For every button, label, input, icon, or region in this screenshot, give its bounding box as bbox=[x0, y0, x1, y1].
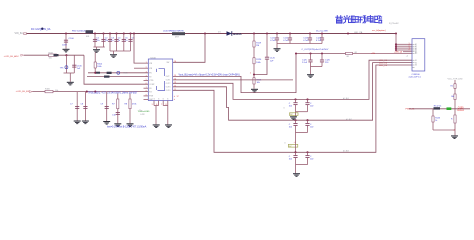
net label bl_fb1 bbox=[343, 98, 350, 100]
wire IC bottom pin 7 bbox=[162, 101, 164, 106]
label TP100 bbox=[60, 67, 65, 69]
wire R121 to gnd bbox=[253, 84, 255, 89]
capacitor C120 bbox=[265, 57, 269, 59]
svg-text:K1: K1 bbox=[415, 60, 417, 62]
resistor R142 body dark bbox=[434, 107, 441, 109]
wire PWM gate bbox=[409, 108, 470, 110]
wire cap C105 drop bbox=[123, 34, 125, 52]
ground C107 bbox=[74, 121, 81, 125]
net label LED_PA on rail bbox=[354, 31, 363, 34]
svg-text:4.7uF: 4.7uF bbox=[316, 40, 322, 42]
IC bottom pin numbers red bbox=[152, 104, 167, 106]
wire cap C106A drop bbox=[130, 34, 132, 52]
capacitor C105 bbox=[122, 39, 126, 41]
label R143 bbox=[435, 118, 441, 120]
wire fb2 down to fb3 bbox=[295, 133, 297, 153]
wire TP gnd drop bbox=[69, 73, 71, 82]
gray mark fb1 bbox=[284, 108, 286, 110]
pin number red x254 bbox=[250, 72, 252, 74]
label R144 bbox=[451, 119, 453, 121]
junction bundle y46.2 bbox=[395, 45, 397, 47]
wire bus1 gnd drop bbox=[96, 47, 98, 49]
capacitor C122 bbox=[288, 38, 292, 40]
wire output bus gnd drop bbox=[276, 44, 278, 49]
labels fb2 caps bbox=[289, 124, 315, 129]
ground fb3 bbox=[293, 173, 300, 177]
svg-text:22u: 22u bbox=[105, 40, 108, 42]
junction rail x95 bbox=[94, 32, 96, 34]
wire IC gnd drop right bbox=[167, 106, 169, 125]
net label PWM_BL red bbox=[406, 108, 416, 110]
wire y53.5 right of R130 bbox=[353, 53, 413, 55]
svg-text:COMP: COMP bbox=[149, 84, 155, 86]
capacitor C110 under R107 bbox=[116, 113, 120, 115]
svg-text:7: 7 bbox=[161, 104, 162, 106]
testpoint TP101 circle bbox=[117, 71, 120, 74]
junction y53.5 x296 bbox=[295, 52, 297, 54]
connector pin names gray bbox=[415, 43, 418, 67]
label R143 val bbox=[435, 120, 437, 122]
label gray column x101 bbox=[111, 55, 113, 57]
svg-text:SWD: SWD bbox=[123, 73, 128, 75]
IC U100 thermal pad red marks bbox=[174, 96, 179, 101]
junction rail x310 bbox=[309, 32, 311, 34]
testpoint TP100 circle bbox=[65, 66, 68, 69]
wire IC gnd bus left bbox=[154, 105, 159, 107]
wire connector anode pin 2 bbox=[396, 45, 412, 47]
wire fb1 capL drop bbox=[295, 99, 297, 102]
label R120 100k bbox=[256, 59, 262, 64]
junction y53.5 x310 bbox=[309, 52, 311, 54]
wire IC left stub 0 bbox=[144, 79, 149, 81]
junction rail x103.5 bbox=[102, 32, 104, 34]
svg-text:TPS61165/2: 4.5T 1.8-24V/28V/1: TPS61165/2: 4.5T 1.8-24V/28V/1.2MHz SW-B… bbox=[88, 93, 139, 95]
junction C120 to divider bbox=[253, 73, 255, 75]
ground output bank bbox=[274, 48, 281, 52]
wire EN to IC bbox=[88, 72, 148, 74]
resistor R104 bbox=[94, 62, 96, 68]
label blue above rail bbox=[316, 31, 328, 33]
wire C108 vertical bbox=[84, 92, 86, 121]
ground TP branch bbox=[67, 82, 74, 86]
ground fb1 bbox=[290, 116, 297, 120]
svg-text:OUT1: OUT1 bbox=[166, 80, 171, 82]
wire Q100 bottom bus bbox=[433, 129, 455, 131]
wire VCC_TOP vertical bbox=[454, 80, 456, 109]
ground mid caps bbox=[307, 74, 314, 78]
labels output cap bank bbox=[270, 37, 322, 42]
wire C121 lower bbox=[276, 40, 278, 44]
junction rail x267 bbox=[266, 32, 268, 34]
resistor R101 on ADJ bbox=[49, 54, 57, 56]
wire R104 vertical bbox=[94, 52, 96, 73]
power label DC 12V@VIN_6A bbox=[31, 28, 51, 31]
label C106 val bbox=[77, 68, 81, 70]
svg-text:CTRL: CTRL bbox=[149, 80, 153, 82]
junction rail x277 bbox=[276, 32, 278, 34]
net label +LCD_BL_EN bbox=[16, 91, 30, 93]
wire fb1 bottom bus bbox=[296, 111, 308, 113]
svg-text:vcc_bl(option): vcc_bl(option) bbox=[372, 29, 386, 32]
net label +LCD_BL_ADJ bbox=[4, 55, 19, 58]
capacitor C102 bbox=[101, 39, 105, 41]
label R106 ref bbox=[45, 88, 51, 90]
wire C126 lower bbox=[321, 62, 323, 67]
svg-text:B340A: B340A bbox=[233, 32, 241, 36]
diode D100 schottky bbox=[227, 31, 232, 36]
label R106 val bbox=[55, 90, 58, 92]
wire fb1 capR lower bbox=[307, 105, 309, 112]
connector CON100 box bbox=[412, 39, 425, 71]
svg-text:4.7uF: 4.7uF bbox=[283, 40, 289, 42]
wire cap bank bus2 bbox=[110, 50, 131, 52]
svg-text:22u: 22u bbox=[96, 40, 99, 42]
pin numbers connector anode red bbox=[409, 43, 410, 51]
label Q100 red bbox=[457, 108, 465, 112]
wire RT pin bbox=[87, 76, 148, 78]
net label VCC_TOP_LED bbox=[448, 78, 463, 80]
junction rail x348 bbox=[347, 32, 349, 34]
label R101 val bbox=[49, 58, 52, 60]
svg-text:+2: +2 bbox=[406, 55, 408, 57]
junction rail x123.8 bbox=[123, 32, 125, 34]
junction fb1 left bbox=[294, 98, 296, 100]
IC U100 right pin numbers red bbox=[174, 61, 176, 91]
svg-text:R5: R5 bbox=[111, 55, 113, 57]
junction rail x322 bbox=[321, 32, 323, 34]
ground R108 bbox=[127, 123, 134, 127]
wire R119 to R120 bbox=[253, 47, 255, 58]
svg-text:5: 5 bbox=[152, 104, 153, 106]
label connector type bbox=[409, 76, 422, 78]
svg-text:DC 12V@VIN_6A: DC 12V@VIN_6A bbox=[31, 28, 51, 31]
wire C125 drop bbox=[310, 54, 312, 61]
junction bundle y44.3 bbox=[395, 43, 397, 45]
wire cap bank bus1 bbox=[93, 46, 104, 48]
label C120 1uF bbox=[270, 58, 276, 63]
junction fb3 right bbox=[306, 151, 308, 153]
svg-text:K2: K2 bbox=[415, 62, 417, 64]
wire Q100 right branch bbox=[454, 109, 456, 130]
labels gray right of bank bbox=[139, 110, 145, 116]
resistor R106 on EN bbox=[45, 90, 53, 92]
wire fb2 capL lower bbox=[295, 125, 297, 132]
pin numbers Q100 red bbox=[453, 129, 456, 131]
net label vcc_bl option bbox=[372, 29, 386, 32]
wire IC bottom pin 5 bbox=[153, 101, 155, 106]
wire R120 to R121 bbox=[253, 64, 255, 78]
svg-text:bl_fb2: bl_fb2 bbox=[346, 119, 353, 121]
capacitor C103 bbox=[108, 39, 112, 41]
junction fb1 right bbox=[306, 98, 308, 100]
svg-text:0.2R: 0.2R bbox=[140, 114, 145, 116]
red labels LED_K bbox=[379, 60, 388, 67]
IC U100 right pin names bbox=[166, 62, 171, 92]
svg-text:OUT2: OUT2 bbox=[166, 83, 171, 85]
wire IC left stub 1 bbox=[144, 87, 149, 89]
port marker EN bbox=[29, 91, 32, 93]
svg-text:10k: 10k bbox=[451, 96, 454, 98]
labels input cap bank bbox=[96, 38, 135, 43]
wire OUT3 staircase bl_fb1 bbox=[173, 60, 412, 99]
ground input bank 1 bbox=[93, 49, 100, 53]
wire fb1 capL lower bbox=[295, 105, 297, 112]
wire VIN to IC pin2 bbox=[134, 67, 148, 69]
label D100 ref bbox=[218, 31, 221, 33]
label FB1 value bbox=[72, 30, 87, 32]
labels fb3 caps bbox=[289, 156, 315, 161]
wire main VIN rail bbox=[27, 33, 397, 35]
svg-text:U100: U100 bbox=[151, 57, 157, 59]
svg-text:2.2uF: 2.2uF bbox=[302, 62, 308, 64]
wire OUT4 staircase bl_fb2 bbox=[173, 63, 412, 121]
junction ADJ x66.4 bbox=[65, 54, 67, 56]
wire VIN to IC pin1 bbox=[134, 34, 148, 64]
wire EN horizontal bbox=[33, 91, 149, 93]
svg-text:OUT4: OUT4 bbox=[166, 90, 171, 92]
capacitor fb3 L bbox=[293, 156, 297, 158]
resistor R130 on y53.5 bbox=[346, 52, 353, 54]
capacitor C106A bbox=[128, 39, 132, 41]
svg-text:470k: 470k bbox=[132, 104, 136, 106]
net label VIN_6A bbox=[15, 32, 24, 35]
svg-text:C_OUT(X7R)=4x4.7uF/50V: C_OUT(X7R)=4x4.7uF/50V bbox=[302, 49, 329, 51]
IC U100 left pin names bbox=[149, 63, 155, 101]
svg-text:R_PD=NC: R_PD=NC bbox=[389, 23, 399, 25]
wire C120 bottom route bbox=[254, 59, 267, 74]
red labels LED_A bbox=[371, 50, 402, 55]
capacitor C107 bbox=[75, 107, 79, 109]
wire OUT5 staircase bl_fb3 bbox=[173, 65, 412, 152]
svg-text:+5V: +5V bbox=[371, 53, 375, 55]
label D100 B340A bbox=[233, 32, 241, 36]
capacitor C101 bbox=[93, 39, 97, 41]
label Iset formula bbox=[107, 125, 147, 128]
wire C124 drop bbox=[321, 34, 323, 39]
label connector ref bbox=[412, 74, 421, 76]
svg-text:2N7002: 2N7002 bbox=[457, 110, 465, 112]
wire C123 lower bbox=[309, 40, 311, 44]
svg-text:1: 1 bbox=[146, 62, 147, 64]
labels C125 C126 bbox=[302, 59, 331, 64]
label R142 bbox=[434, 106, 441, 108]
wire cap C102 drop bbox=[103, 34, 105, 48]
junction bundle y48.1 bbox=[395, 47, 397, 49]
junction EN x86.8 bbox=[86, 91, 88, 93]
label R104 val bbox=[97, 66, 101, 68]
inductor L100 body bbox=[172, 32, 185, 35]
svg-text:16: 16 bbox=[174, 61, 176, 63]
svg-text:10k: 10k bbox=[49, 58, 52, 60]
svg-text:VIN_6A: VIN_6A bbox=[15, 32, 24, 35]
wire C124 lower bbox=[321, 40, 323, 44]
resistor R fb2 olive NC bbox=[288, 144, 298, 147]
wire mid feed y53.5 bbox=[296, 53, 346, 55]
junction fb3 left bbox=[294, 151, 296, 153]
wire fb1 capR drop bbox=[307, 99, 309, 102]
capacitor C124 bbox=[320, 38, 324, 40]
junction fb2 left bbox=[294, 119, 296, 121]
svg-text:RT: RT bbox=[149, 76, 151, 78]
svg-text:LED_PA: LED_PA bbox=[354, 31, 363, 34]
svg-text:Vout_BL(max)=Vf x 9pcs+0.2V+0.: Vout_BL(max)=Vf x 9pcs+0.2V+0.5V=29V (ma… bbox=[179, 73, 240, 76]
wire ADJ down to CTRL pin bbox=[84, 55, 148, 84]
resistor R fb1 olive NC bbox=[290, 113, 299, 116]
wire cap C103 drop bbox=[109, 34, 111, 52]
svg-text:+LCD_BL_ADJ: +LCD_BL_ADJ bbox=[4, 55, 19, 58]
label thermal green bbox=[138, 110, 151, 113]
capacitor C126 bbox=[320, 60, 324, 62]
label R140 bbox=[451, 86, 453, 88]
resistor R119 bbox=[253, 41, 255, 47]
capacitor C104 bbox=[114, 39, 118, 41]
svg-text:bl_fb1: bl_fb1 bbox=[343, 98, 350, 100]
resistor R140 bbox=[454, 84, 456, 89]
svg-text:100V: 100V bbox=[62, 45, 67, 47]
wire R119 drop bbox=[253, 34, 255, 42]
resistor R121 bbox=[253, 78, 255, 84]
capacitor fb2 L bbox=[293, 124, 297, 126]
svg-text:R1: R1 bbox=[451, 86, 453, 88]
label R121 10k bbox=[257, 79, 263, 84]
wire OUT1 staircase bbox=[173, 54, 296, 93]
ground C108 bbox=[82, 121, 89, 125]
capacitor C106 bbox=[72, 65, 76, 67]
wire C121 drop bbox=[276, 34, 278, 39]
label R141 bbox=[451, 96, 454, 98]
labels fb1 caps bbox=[289, 103, 315, 108]
svg-text:10k: 10k bbox=[55, 90, 58, 92]
ground input bank 2 bbox=[110, 54, 117, 58]
label R130 0R bbox=[355, 52, 358, 54]
wire TP branch bbox=[65, 55, 67, 73]
resistor R108 bbox=[129, 99, 131, 109]
svg-text:Vo_max 38V: Vo_max 38V bbox=[316, 31, 328, 33]
IC U100 left pin numbers red bbox=[146, 62, 147, 97]
svg-text:100k: 100k bbox=[97, 66, 101, 68]
junction fb2 right bbox=[306, 119, 308, 121]
wire C106 branch bbox=[73, 55, 75, 73]
resistor R103 body dark bbox=[107, 72, 112, 74]
resistor R102 body dark bbox=[95, 72, 100, 74]
wire connector anode pin 3 bbox=[396, 47, 412, 49]
net label bl_fb2 bbox=[346, 119, 353, 121]
wire TP cap bottom bus bbox=[64, 72, 75, 74]
wire output bank bus bbox=[277, 43, 322, 45]
svg-text:17: 17 bbox=[177, 96, 179, 98]
wire OUT2 to OVP node bbox=[173, 79, 293, 81]
capacitor C123 bbox=[308, 38, 312, 40]
junction R104 pin3 bbox=[94, 72, 96, 74]
wire cap C104 drop bbox=[116, 34, 118, 52]
wire fb2 capR lower bbox=[307, 125, 309, 132]
svg-text:1u: 1u bbox=[111, 40, 113, 42]
svg-text:FLT: FLT bbox=[149, 91, 152, 93]
resistor R105 body dark bbox=[104, 76, 110, 78]
wire cap C101 drop bbox=[94, 34, 96, 48]
svg-text:Iset=0.2V/Rset B-1206 2-NT: Iset=0.2V/Rset B-1206 2-NT 1.5/30mA bbox=[107, 125, 147, 128]
junction bundle y50.0 bbox=[395, 49, 397, 51]
wire C125 lower bbox=[310, 62, 312, 67]
wire IC bottom pin 6 bbox=[158, 101, 160, 106]
ground IC right bbox=[165, 124, 172, 128]
capacitor fb1 L bbox=[293, 103, 297, 105]
junction EN x95.3 bbox=[94, 91, 96, 93]
port marker ADJ bbox=[21, 54, 24, 56]
svg-text:C100: C100 bbox=[69, 38, 75, 40]
ground under C100 bbox=[63, 49, 70, 53]
wire fb2 capR drop bbox=[307, 120, 309, 123]
wire C107 vertical bbox=[76, 92, 78, 121]
op-amp U100 TPS61165 boost controller box bbox=[148, 59, 172, 101]
wire C125 C126 bus bbox=[311, 66, 323, 68]
junction rail x205 SW bbox=[204, 32, 206, 34]
red mark fb2 bbox=[294, 142, 297, 144]
svg-text:1M: 1M bbox=[256, 45, 259, 47]
wire fb3 capL lower bbox=[295, 158, 297, 165]
capacitor fb2 R bbox=[305, 124, 309, 126]
wire bus2 gnd drop bbox=[113, 51, 115, 54]
capacitor fb1 R bbox=[305, 103, 309, 105]
title text 背光驱动电路 (backlight driver circuit) drawn as stroke glyphs bbox=[336, 16, 382, 24]
label C106 bbox=[77, 66, 83, 68]
wire fb3 capL drop bbox=[295, 152, 297, 155]
svg-text:2: 2 bbox=[146, 67, 147, 69]
junction rail x134 bbox=[133, 32, 135, 34]
svg-text:wafer-10P 1.0: wafer-10P 1.0 bbox=[409, 76, 422, 78]
junction rail x110 bbox=[109, 32, 111, 34]
wire connector anode pin 1 bbox=[396, 43, 412, 45]
resistor R143 bbox=[432, 116, 434, 122]
junction rail x130.5 bbox=[129, 32, 131, 34]
wire IC left stub 3 bbox=[144, 99, 149, 101]
wire fb3 gnd drop bbox=[295, 165, 297, 174]
net label bl_fb3 bbox=[343, 150, 350, 152]
junction rail x396 bbox=[395, 32, 397, 34]
wire fb3 capR lower bbox=[307, 158, 309, 165]
junction rail x254 bbox=[253, 32, 255, 34]
label Cout formula bbox=[302, 49, 329, 51]
power symbol dot on DC12V label bbox=[41, 28, 43, 30]
wire C122 drop bbox=[289, 34, 291, 39]
resistor R120 bbox=[253, 58, 255, 64]
transistor Q100 gate mark green bbox=[447, 107, 452, 110]
resistor R141 bbox=[454, 94, 456, 100]
wire fb3 bottom bus bbox=[296, 164, 308, 166]
wire fb2 capL drop bbox=[295, 120, 297, 123]
svg-text:1u: 1u bbox=[118, 40, 120, 42]
capacitor C121 bbox=[275, 38, 279, 40]
capacitor C100 input bbox=[64, 40, 68, 42]
wire IC left stub 2 bbox=[144, 95, 149, 97]
wire C109 vertical bbox=[106, 92, 108, 121]
wire Q100 gnd drop bbox=[454, 130, 456, 135]
svg-text:4.7uF: 4.7uF bbox=[270, 40, 276, 42]
svg-text:+LCD_BL_EN: +LCD_BL_EN bbox=[16, 91, 30, 93]
wire fb3 capR drop bbox=[307, 152, 309, 155]
svg-text:L100 NR8040T4R7N: L100 NR8040T4R7N bbox=[163, 30, 184, 32]
wire R107 vertical bbox=[117, 94, 119, 124]
ground R107 bbox=[114, 123, 121, 127]
capacitor fb3 R bbox=[305, 156, 309, 158]
svg-text:ISET: ISET bbox=[149, 99, 153, 101]
wire mid gnd drop bbox=[310, 67, 312, 75]
ferrite bead FB1 body bbox=[86, 30, 94, 33]
wire fb1 olive drop bbox=[295, 112, 297, 117]
svg-text:FB1 GZ2012D: FB1 GZ2012D bbox=[72, 30, 87, 32]
gray plus marks bbox=[406, 55, 408, 57]
wire IC gnd drop left bbox=[155, 106, 157, 125]
